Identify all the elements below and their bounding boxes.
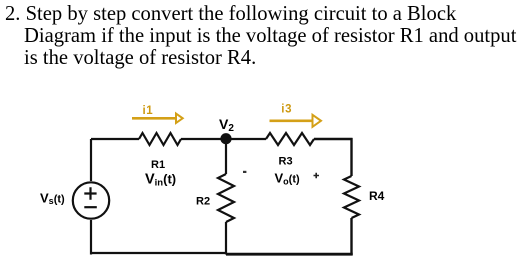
wire left branch upper lead: [90, 139, 92, 181]
svg-text:i3: i3: [281, 103, 292, 115]
voltage source minus sign: [84, 206, 97, 208]
wire right branch lower lead: [350, 218, 352, 255]
node V2 junction dot: [220, 133, 231, 144]
polarity plus mark of Vo: [314, 173, 320, 178]
wire middle branch lower lead: [225, 222, 227, 255]
wire bottom right segment: [226, 253, 353, 256]
voltage source Vs circle: [73, 182, 109, 218]
wire R1 to node V2: [181, 138, 226, 140]
wire right branch upper lead: [350, 138, 352, 176]
wire left branch lower lead: [90, 220, 92, 255]
svg-text:Vin(t): Vin(t): [145, 172, 176, 189]
svg-text:Vs(t): Vs(t): [40, 191, 65, 207]
voltage source plus sign: [84, 187, 96, 199]
wire middle branch upper lead: [225, 139, 227, 174]
resistor R4: [344, 176, 359, 218]
resistor R3: [266, 133, 314, 145]
svg-text:R4: R4: [369, 189, 385, 203]
svg-text:R3: R3: [279, 156, 293, 168]
svg-text:Vo(t): Vo(t): [275, 171, 300, 187]
current arrow i3: [270, 120, 313, 123]
current arrow i1: [132, 117, 175, 120]
svg-text:R1: R1: [151, 159, 165, 171]
svg-text:i1: i1: [143, 105, 154, 117]
polarity minus mark of Vo: [243, 171, 246, 173]
resistor R2: [218, 174, 234, 222]
svg-text:V2: V2: [219, 116, 234, 134]
svg-text:R2: R2: [196, 196, 210, 208]
wire node V2 to R3: [226, 138, 266, 140]
wire R3 to top right corner: [314, 138, 353, 140]
wire bottom left segment: [90, 252, 227, 254]
resistor R1: [139, 133, 181, 145]
wire top left (source to R1): [91, 138, 139, 140]
